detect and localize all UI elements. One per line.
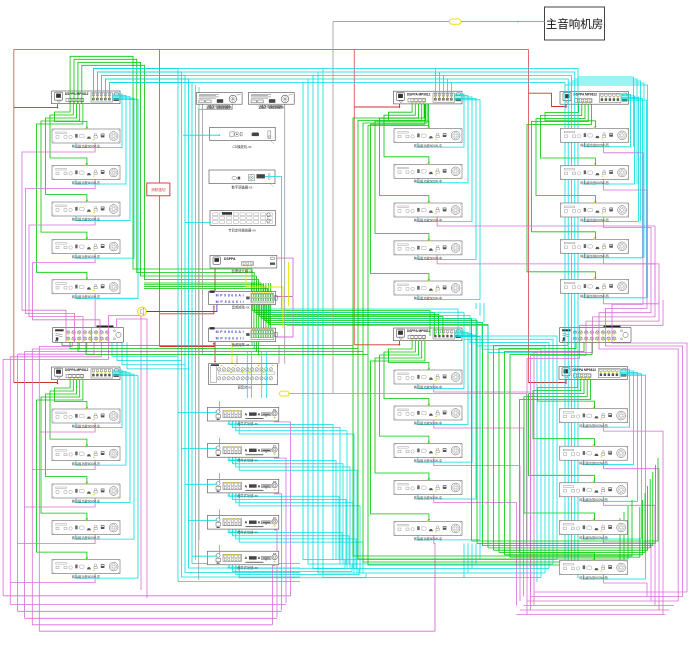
magenta east corner feeds into patch panel J1 [109,316,148,599]
red power tap to rack R5 header [354,341,400,346]
svg-text:DSPPA MP9812: DSPPA MP9812 [65,92,89,96]
red power tap to rack R2 header [354,104,400,108]
pre-amplifier D [210,256,277,269]
svg-text:纯后级功放600W-西: 纯后级功放600W-西 [580,180,608,185]
svg-text:纯后级功放600W-西: 纯后级功放600W-西 [580,294,608,299]
zone amplifier Z3 [207,479,278,498]
svg-text:纯后级功放600W-东: 纯后级功放600W-东 [72,535,100,540]
svg-text:DSPPA MP9812: DSPPA MP9812 [407,92,431,96]
red feed to matrix M1 [160,305,216,314]
fire-control red label box [147,183,170,196]
svg-text:DSPPA MP9812: DSPPA MP9812 [574,93,598,97]
green bundle matrix output east [252,305,488,548]
green speaker feed chain R3 [527,104,597,279]
magenta bottom-west fan [3,596,290,625]
green band jack panel J2 west into bottom U [494,342,593,557]
red feed bus to matrix M2 and mixer [160,342,217,363]
red power bus ring [14,50,529,383]
svg-text:音频矩阵-xx: 音频矩阵-xx [232,305,250,310]
zone amplifier Z4 [207,516,278,535]
cyan speaker-line bus R6 [583,370,645,579]
cyan wire tag to main room [461,21,545,23]
svg-text:合并式功放-xx: 合并式功放-xx [237,529,258,534]
power amplifier R5-3 [394,443,462,464]
svg-text:消防强切: 消防强切 [151,187,166,192]
svg-text:纯后级功放600W-东: 纯后级功放600W-东 [72,294,100,299]
cyan band mid-east to rack R3 bus [565,77,648,298]
cyan speaker-line bus R5 [418,331,480,540]
svg-text:合并式功放-xx: 合并式功放-xx [237,493,258,498]
power amplifier R2-2 [394,163,462,184]
cyan speaker-line bus R4 [76,370,138,578]
svg-text:纯后级功放600W-中: 纯后级功放600W-中 [414,420,442,425]
svg-text:纯后级功放600W-中: 纯后级功放600W-中 [414,536,442,541]
svg-text:纯后级功放600W-中: 纯后级功放600W-中 [414,384,442,389]
cyan speaker-line bus R2 [418,94,480,299]
svg-text:CD播放机-xx: CD播放机-xx [232,144,251,149]
pre-amplifier header R4 [52,367,121,380]
zone amplifier Z2 [207,444,278,463]
magenta west inner spare verticals [517,392,531,606]
magenta zone lines rack R3 to east bus [604,138,659,303]
svg-text:纯后级功放600W-西: 纯后级功放600W-西 [579,535,607,540]
magenta braid bus into patch panel J2 [580,300,664,342]
green speaker feed chain R4 [37,380,89,559]
magenta center verticals [273,419,291,625]
yellow wire device D to matrix M2 [232,262,289,364]
svg-text:DSPPA MP9812: DSPPA MP9812 [65,368,89,372]
magenta full-width bottom line [39,560,435,631]
power amplifier R1-5 [52,279,120,300]
svg-text:纯后级功放600W-西: 纯后级功放600W-西 [580,143,608,148]
green speaker feed chain R2 [371,104,431,281]
pre-amplifier header R1 [52,91,121,104]
pre-amplifier header R3 [560,92,629,105]
svg-text:纯后级功放600W-中: 纯后级功放600W-中 [414,217,442,222]
main control room label box [545,7,605,40]
red feed device D to matrix M1 [214,268,216,291]
svg-text:纯后级功放600W-西: 纯后级功放600W-西 [579,575,607,580]
cyan rack R5 bus extension south [464,543,480,577]
svg-text:纯后级功放600W-中: 纯后级功放600W-中 [414,143,442,148]
audio matrix M1 [209,291,278,310]
cyan bundle rack R1 header to center bus [93,69,300,582]
svg-text:合并式功放-xx: 合并式功放-xx [237,421,258,426]
monitor panel M-B [248,93,294,109]
svg-text:节目定时播放器-xx: 节目定时播放器-xx [228,227,256,232]
svg-text:纯后级功放600W-东: 纯后级功放600W-东 [72,143,100,148]
svg-text:数字调谐器-xx: 数字调谐器-xx [232,185,253,190]
red power tap to rack R6 header [529,379,568,384]
power amplifier R1-1 [52,128,120,148]
svg-text:调音台-xx: 调音台-xx [237,385,252,390]
power amplifier R3-1 [561,127,629,148]
monitor panel M-A [196,93,242,109]
cable tag T2 with gray run east [280,391,527,545]
magenta zone lines rack R6 to east bus [604,419,663,615]
green bundle rack R1 to center matrix [70,56,259,291]
svg-text:纯后级功放600W-东: 纯后级功放600W-东 [72,254,100,259]
cyan taps from left bus to center devices [178,134,282,556]
cyan rack R2 bus extension south [476,303,484,322]
zone amplifier Z1 [207,407,278,426]
magenta pass-through patch panel J1 [66,327,109,342]
svg-text:纯后级功放600W-中: 纯后级功放600W-中 [414,179,442,184]
svg-text:纯后级功放600W-东: 纯后级功放600W-东 [72,574,100,579]
svg-text:纯后级功放600W-东: 纯后级功放600W-东 [72,423,100,428]
power amplifier R4-5 [52,559,120,580]
green speaker feed chain R5 [371,341,431,521]
magenta staircase J2 to west inner verticals [527,342,593,614]
svg-text:DSPPA MP9812: DSPPA MP9812 [573,368,597,372]
power amplifier R5-2 [394,405,462,426]
cyan speaker-line bus R1 [76,94,138,298]
svg-text:纯后级功放600W-东: 纯后级功放600W-东 [72,216,100,221]
power amplifier R4-3 [52,483,120,504]
power amplifier R3-4 [561,238,629,259]
svg-text:前置放大器-xx: 前置放大器-xx [232,269,253,274]
svg-text:纯后级功放600W-中: 纯后级功放600W-中 [414,458,442,463]
power amplifier R6-4 [560,519,628,540]
cyan long runs lower east bands [262,309,557,582]
cyan feeds crossing mixer console [247,352,266,398]
power amplifier R2-5 [394,280,462,301]
gray mixer feed from monitor bus [203,104,238,364]
svg-text:主音响机房: 主音响机房 [546,17,604,31]
power amplifier R1-3 [52,201,120,222]
gray trunk wire to main room [333,22,450,393]
pre-amplifier header R2 [394,91,463,104]
magenta zone lines rack R4 to west outer bus [10,419,95,583]
green matrix grid feed-through [252,283,271,328]
svg-text:纯后级功放600W-东: 纯后级功放600W-东 [72,498,100,503]
svg-text:紧急广播控制器-B: 紧急广播控制器-B [258,105,284,110]
gray wire monitor B down [284,104,286,364]
power amplifier R5-1 [394,369,462,390]
svg-text:纯后级功放600W-中: 纯后级功放600W-中 [414,295,442,300]
svg-text:纯后级功放600W-东: 纯后级功放600W-东 [72,180,100,185]
svg-text:合并式功放-xx: 合并式功放-xx [237,565,258,570]
svg-text:纯后级功放600W-西: 纯后级功放600W-西 [579,461,607,466]
gray wire monitor A down-left [199,104,233,580]
red power tap to rack R3 header [529,93,568,108]
cyan drops to rack R2 header [435,69,451,101]
svg-text:DSPPA: DSPPA [224,257,236,261]
svg-text:紧急广播控制器-A: 紧急广播控制器-A [206,105,232,110]
cable tag T1 [450,19,462,24]
green speaker feed chain R1 [37,104,89,280]
magenta staircase J2 to east outer bus [599,342,687,601]
magenta zone lines rack R5 east [434,380,531,631]
cyan distribution fans under zone amplifiers [228,421,367,578]
cyan trunk band across top [93,69,578,579]
magenta zone lines rack R1 via west bus into patch panel J1 [22,139,100,327]
blue wire speaker to matrix M1 [146,305,217,312]
red power tap to rack R4 header [14,380,59,385]
svg-text:纯后级功放600W-西: 纯后级功放600W-西 [580,217,608,222]
svg-text:纯后级功放600W-中: 纯后级功放600W-中 [414,255,442,260]
power amplifier R6-5 [560,559,628,580]
green bottom U turns east and up [472,458,659,557]
magenta zone lines rack R2 [437,213,659,300]
power amplifier R2-4 [394,240,462,260]
yellow speaker symbol [138,307,147,316]
zone amplifier Z5 [207,551,278,570]
cyan staircase patch panel J1 east to center bus [112,342,189,369]
svg-text:纯后级功放600W-西: 纯后级功放600W-西 [580,254,608,259]
svg-text:MP9866AI: MP9866AI [216,293,244,297]
svg-text:MP9866II: MP9866II [216,300,244,304]
magenta bottom-east fan [517,592,688,615]
green trunk rack R2 header to lower half [353,104,429,355]
patch jack panel J2 [560,326,632,343]
magenta staircase patch panel J1 to west outer bus [3,342,108,631]
magenta matrix-mixer links [276,258,293,364]
svg-text:MP9866II: MP9866II [216,337,244,341]
audio matrix M2 [209,327,278,347]
green band jack panel J1 east into bottom U [62,342,632,565]
red power tap to rack R1 header [14,104,59,109]
power amplifier R4-2 [52,446,120,467]
power amplifier R3-3 [561,202,629,223]
power amplifier R1-4 [52,239,120,260]
timer programmer [210,211,276,226]
svg-text:合并式功放-xx: 合并式功放-xx [237,457,258,462]
svg-text:音频矩阵-xx: 音频矩阵-xx [232,342,250,347]
power amplifier R5-4 [394,479,462,500]
power amplifier R6-1 [560,408,628,429]
cyan speaker-line bus R3 [584,95,646,298]
power amplifier R6-3 [560,482,628,503]
digital tuner [209,170,275,187]
svg-text:纯后级功放600W-中: 纯后级功放600W-中 [414,495,442,500]
green stubs matrix M2 to band [252,342,259,355]
pre-amplifier header R5 [394,328,463,341]
patch jack panel J1 [53,326,124,343]
cyan drops to mid vertical bus [303,69,557,578]
power amplifier R2-3 [394,202,462,223]
svg-text:DSPPA MP9812: DSPPA MP9812 [407,329,431,333]
power amplifier R3-2 [561,164,629,185]
svg-text:纯后级功放600W-西: 纯后级功放600W-西 [579,423,607,428]
svg-text:纯后级功放600W-东: 纯后级功放600W-东 [72,461,100,466]
power amplifier R5-5 [394,520,462,541]
power amplifier R4-4 [52,520,120,541]
pre-amplifier header R6 [559,367,628,380]
green speaker feed chain R6 [520,379,596,560]
mixer console [209,364,278,390]
svg-text:纯后级功放600W-西: 纯后级功放600W-西 [579,497,607,502]
power amplifier R6-2 [560,445,628,466]
power amplifier R4-1 [52,408,120,429]
green extra feeds to matrix M1 [144,283,267,292]
power amplifier R2-1 [394,128,462,149]
CD player [210,127,276,143]
svg-text:MP9866AI: MP9866AI [216,330,244,334]
power amplifier R3-5 [561,278,629,299]
power amplifier R1-2 [52,164,120,185]
